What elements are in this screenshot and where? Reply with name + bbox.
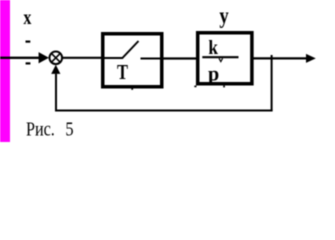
arrowhead into summer [39,52,49,63]
svg-text:p: p [208,64,219,86]
svg-text:Рис.: Рис. [26,118,55,140]
block T (relay) [103,34,162,87]
svg-text:k: k [208,37,218,59]
wire block T to block k/p [163,57,197,59]
svg-text:5: 5 [65,118,73,140]
minus sign upper [26,41,31,43]
svg-text:x: x [23,5,31,29]
handle nub block k/p mid-bottom [223,86,225,88]
block k/p (integrator) [198,33,252,84]
svg-text:T: T [117,60,128,84]
switch left lead [105,57,124,59]
wire output [252,57,308,59]
svg-text:y: y [219,3,229,28]
arrowhead into summer from below [51,65,60,74]
switch blade [122,41,138,58]
wire summer to block T [63,57,102,59]
arrowhead output [306,54,316,63]
summing junction [50,52,63,65]
switch right lead [141,58,161,60]
wire feedback bottom [56,110,273,112]
fraction bar [202,56,238,58]
wire feedback tap vertical [271,55,273,111]
handle nub block k/p bottom-left [194,86,196,88]
handle nub block T mid-bottom [131,88,133,89]
magenta sidebar [0,0,10,142]
minus sign lower [26,62,31,64]
subscript v [219,58,223,61]
wire feedback left vertical [55,74,57,112]
wire input [0,57,39,59]
